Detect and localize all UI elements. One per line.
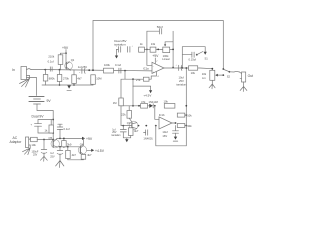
- wire envelope drop from signal: [124, 71, 126, 80]
- resistor R13 22k: [121, 106, 131, 122]
- transistor Q4: [78, 138, 86, 154]
- transistor Q1: [61, 53, 75, 70]
- svg-text:25V: 25V: [50, 155, 55, 158]
- svg-text:9V: 9V: [47, 99, 52, 103]
- capacitor C8 envelope: [112, 126, 127, 138]
- resistor R21 1k5 lower: [177, 124, 192, 129]
- wire envelope row: [121, 105, 187, 127]
- wire ground rail input: [42, 84, 93, 86]
- svg-text:270k: 270k: [63, 77, 69, 81]
- battery BT1 9V: [29, 97, 51, 105]
- svg-text:27k: 27k: [136, 78, 141, 82]
- svg-text:4k7: 4k7: [72, 153, 77, 157]
- svg-text:+9V: +9V: [152, 54, 159, 58]
- ground 1uf cap: [56, 161, 64, 168]
- svg-text:1N4148: 1N4148: [149, 100, 159, 104]
- svg-text:S1: S1: [205, 57, 209, 61]
- svg-text:4k7: 4k7: [134, 129, 139, 133]
- wire loop left edge: [155, 126, 157, 146]
- svg-text:1uf 25V: 1uf 25V: [78, 65, 87, 69]
- wire output long vertical: [185, 67, 187, 146]
- resistor R4 4k7 source: [72, 70, 82, 85]
- resistor R2 680k: [43, 70, 55, 85]
- svg-text:10k: 10k: [202, 72, 207, 76]
- svg-text:+4.5V: +4.5V: [143, 93, 151, 97]
- svg-text:Q5: Q5: [49, 136, 53, 140]
- ground envelope RC: [123, 138, 130, 143]
- transistor Q3: [127, 121, 138, 130]
- svg-text:10uf: 10uf: [162, 130, 167, 134]
- resistor R5 10M: [91, 75, 102, 85]
- capacitor C4 dual tantalum: [114, 39, 133, 52]
- capacitor C7 10uf tantalum output: [176, 64, 188, 86]
- ground 100uF cap: [40, 156, 47, 161]
- capacitor C12 1uf 25V: [50, 147, 63, 161]
- svg-text:13k: 13k: [151, 42, 156, 46]
- capacitor C11 0.1uf decoupling: [57, 124, 70, 138]
- ground input jack chassis: [20, 76, 30, 88]
- capacitor C9 10uf inside loop: [162, 126, 178, 139]
- svg-text:47k: 47k: [141, 100, 146, 104]
- resistor R3 270k: [57, 70, 69, 85]
- capacitor C1 0.1uf input: [48, 54, 55, 71]
- switch S1 branch: [182, 47, 207, 68]
- resistor R16 3k9: [62, 138, 72, 146]
- capacitor C2 1uf 25V: [78, 65, 87, 74]
- resistor R22 27k bias: [136, 77, 151, 82]
- switch S1 lever: [197, 52, 208, 61]
- wire top bypass loop: [93, 21, 224, 71]
- transistor Q5: [49, 136, 60, 148]
- wire op-amp output: [164, 67, 213, 70]
- svg-text:0.1uf: 0.1uf: [115, 63, 121, 67]
- node +9V arrow bottom: [82, 137, 93, 141]
- diode D1 1N4001: [143, 130, 153, 141]
- op-amp U1 IC1a: [143, 62, 164, 73]
- resistor R12 10k envelope: [164, 100, 175, 109]
- svg-text:10k: 10k: [164, 100, 169, 104]
- wire trimmer to output drop: [172, 31, 174, 68]
- resistor R8 13k feedback: [144, 42, 162, 52]
- svg-text:10k: 10k: [187, 113, 192, 117]
- svg-text:tantalum: tantalum: [112, 134, 121, 137]
- wire signal main: [31, 69, 152, 72]
- capacitor C5 50pf loop: [147, 25, 163, 49]
- resistor R20 10k upper: [177, 113, 192, 117]
- ground dual tantalum: [115, 49, 118, 58]
- jack J2 output: [240, 72, 254, 82]
- svg-text:Adaptor: Adaptor: [10, 140, 23, 144]
- svg-text:10M: 10M: [96, 77, 102, 81]
- svg-text:IC1a: IC1a: [143, 66, 149, 70]
- svg-text:S2: S2: [227, 75, 231, 79]
- wire divider bottom: [68, 159, 84, 161]
- svg-text:100k: 100k: [104, 63, 110, 67]
- svg-text:10k: 10k: [31, 143, 36, 147]
- svg-text:0.1uf: 0.1uf: [64, 127, 70, 131]
- svg-text:30k: 30k: [187, 124, 192, 128]
- svg-text:+9V: +9V: [86, 137, 93, 141]
- svg-text:Dual 9V: Dual 9V: [32, 115, 45, 119]
- resistor R9 10k output: [189, 66, 198, 75]
- svg-text:210k: 210k: [48, 54, 54, 58]
- svg-text:50pf: 50pf: [157, 25, 163, 29]
- node +4.5V arrow right: [87, 149, 105, 154]
- ground capacitor C9: [173, 137, 178, 142]
- svg-text:0.1uf: 0.1uf: [48, 59, 54, 63]
- wire bias row mid: [121, 78, 143, 98]
- svg-text:Lin: Lin: [202, 76, 206, 80]
- capacitor C6 0.15uf: [182, 52, 197, 61]
- wire inverting input feed: [146, 49, 152, 66]
- wire filter branch top: [38, 120, 53, 124]
- wire Q5 emitter to Q4 base: [57, 146, 81, 148]
- ground AC jack chassis: [23, 145, 31, 155]
- svg-text:0.15uf: 0.15uf: [189, 57, 197, 61]
- resistor R7 1k feedback: [139, 42, 145, 52]
- wire 4.5V to envelope row: [132, 86, 134, 106]
- wire +9V rail bottom: [57, 138, 85, 140]
- wire Q3 base row: [121, 106, 157, 127]
- resistor R10 1M: [113, 98, 124, 106]
- resistor R14 1k: [45, 120, 54, 134]
- svg-text:10k: 10k: [191, 71, 196, 75]
- capacitor C3 0.1uf: [115, 63, 121, 73]
- potentiometer VR2 10k Lin: [202, 70, 224, 80]
- wire diode row to noninverting input: [155, 106, 159, 120]
- svg-text:22k: 22k: [121, 113, 126, 117]
- svg-text:IC1b: IC1b: [159, 113, 165, 117]
- svg-text:Q1: Q1: [71, 58, 75, 62]
- svg-text:4k7: 4k7: [77, 77, 82, 81]
- wire loop bottom edge: [156, 145, 187, 147]
- switch S2 lever: [224, 70, 231, 79]
- svg-text:1N4001: 1N4001: [143, 137, 153, 141]
- node +9V top left: [62, 46, 69, 53]
- op-amp U2 IC1b: [159, 113, 172, 129]
- capacitor C13 100uF 25V: [32, 140, 47, 157]
- svg-text:+9V: +9V: [62, 46, 69, 50]
- wire jack sleeve to battery: [27, 78, 37, 96]
- wire IC1b output: [172, 122, 176, 124]
- svg-text:In: In: [12, 68, 15, 72]
- svg-text:Q4: Q4: [80, 143, 84, 147]
- resistor R1 210k: [58, 52, 67, 70]
- svg-text:25V: 25V: [179, 79, 184, 83]
- wire battery to power node: [37, 104, 54, 140]
- node +4.5V mid: [133, 79, 152, 97]
- svg-text:+4.5V: +4.5V: [95, 149, 105, 153]
- resistor R6 100k: [104, 63, 114, 73]
- trimmer VR1 100k: [162, 42, 173, 61]
- node AC Adaptor label: [10, 136, 23, 144]
- wire AC row: [37, 139, 54, 141]
- svg-text:Q3: Q3: [127, 121, 131, 125]
- capacitor C10 filter: [31, 123, 54, 133]
- resistor R11 47k: [141, 100, 148, 108]
- node +9V op-amp pin 7: [152, 54, 159, 63]
- ground potentiometer: [209, 80, 215, 89]
- svg-text:tantalum: tantalum: [176, 82, 187, 86]
- resistor R18 4k7 right: [81, 153, 92, 160]
- svg-text:3k9: 3k9: [67, 142, 72, 146]
- svg-text:25V: 25V: [33, 154, 38, 157]
- svg-text:16V: 16V: [162, 134, 167, 138]
- svg-text:Linear: Linear: [162, 57, 170, 61]
- diode D2 1N4148: [148, 100, 159, 108]
- jack J1 input: [21, 67, 31, 80]
- resistor R15 10R: [31, 137, 38, 147]
- pin 4 lead: [151, 72, 159, 79]
- wire S2 to output jack: [229, 70, 239, 73]
- jack J3 AC power: [26, 137, 31, 148]
- svg-text:Out: Out: [248, 74, 254, 78]
- svg-text:4k7: 4k7: [87, 153, 92, 157]
- ground main rail: [67, 85, 71, 90]
- resistor R17 4k7 left: [66, 147, 77, 160]
- resistor R19 4k7 envelope: [129, 128, 139, 138]
- ground output jack: [240, 82, 247, 92]
- svg-text:680k: 680k: [49, 77, 55, 81]
